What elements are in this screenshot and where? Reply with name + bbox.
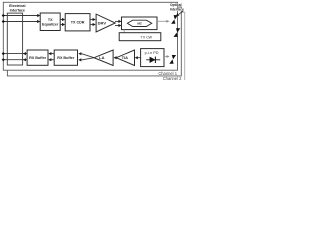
RX wire out 2 — [3, 59, 27, 61]
TX CW laser block — [119, 33, 161, 41]
wire TXCDR to DRV 1 — [90, 19, 93, 21]
connector diamond TX 2 — [2, 20, 5, 23]
optical RX input line — [164, 56, 167, 58]
svg-text:Interface: Interface — [170, 8, 184, 12]
connector diamond TX 1 — [2, 14, 5, 17]
svg-text:MZ: MZ — [137, 22, 142, 26]
RX Buffer block 1 — [27, 50, 48, 65]
svg-text:RX Buffer: RX Buffer — [29, 56, 47, 60]
channel 1 frame — [3, 2, 177, 70]
wire LA to RXbox2 b — [82, 58, 94, 60]
svg-text:p-i-n PD: p-i-n PD — [145, 51, 159, 55]
optical TX output line — [157, 20, 167, 22]
LA limiting amplifier — [94, 50, 113, 66]
TX CDR block — [65, 14, 90, 31]
svg-text:Channel 2: Channel 2 — [163, 76, 182, 80]
svg-text:TIA: TIA — [122, 55, 129, 60]
wire TX input 2 — [3, 21, 37, 23]
arrowhead into TX Equalizer 1 — [37, 14, 40, 17]
wire RXbox2 to RXbox1 b — [51, 59, 54, 61]
svg-text:TX: TX — [48, 18, 53, 22]
svg-text:Equalizer: Equalizer — [42, 22, 59, 26]
svg-text:TX CDR: TX CDR — [71, 21, 85, 25]
photodiode symbol — [146, 59, 160, 61]
wire TXEq to TXCDR 2 — [60, 24, 62, 26]
wire PD to TIA — [138, 57, 141, 59]
RX Buffer block 2 — [54, 50, 77, 65]
RX wire out 1 — [3, 53, 27, 55]
svg-text:Electrical: Electrical — [9, 4, 25, 8]
TX Equalizer block — [40, 13, 60, 31]
channel 2 frame — [7, 7, 181, 76]
p-i-n PD block — [141, 49, 164, 67]
channel 3 frame (partial, light) — [181, 12, 184, 80]
svg-text:Optical: Optical — [170, 3, 182, 7]
svg-text:TX CW: TX CW — [141, 36, 153, 40]
MZ modulator block — [122, 17, 158, 30]
optical connector channel 2 TX (bowtie) — [174, 28, 181, 37]
wire DRV to MZ 1 — [115, 20, 119, 22]
wire TX input 1 — [3, 15, 37, 17]
svg-text:Interface: Interface — [10, 9, 25, 13]
arrow TIA to LA — [114, 56, 117, 59]
electrical connector block — [7, 13, 22, 65]
wire LA to RXbox2 a — [82, 54, 94, 58]
TIA transimpedance amplifier — [116, 50, 134, 66]
connector diamond RX 1 — [2, 52, 5, 55]
svg-text:DRV: DRV — [98, 21, 107, 26]
connector diamond RX 2 — [2, 58, 5, 61]
arrowhead into TX Equalizer 2 — [37, 20, 40, 23]
optical connector channel 1 TX (bowtie) — [171, 15, 178, 24]
wire RXbox2 to RXbox1 a — [51, 53, 54, 55]
pointer arrow to connector — [179, 11, 183, 14]
wire DRV to MZ 2 — [115, 25, 119, 27]
link MZ to TX CW laser — [123, 30, 125, 33]
wire TXEq to TXCDR 1 — [60, 19, 62, 21]
wire TXCDR to DRV 2 — [90, 24, 93, 26]
svg-text:RX Buffer: RX Buffer — [57, 56, 75, 60]
label Optical Interface — [170, 3, 184, 17]
DRV driver amplifier — [96, 14, 115, 32]
optical connector channel 1 RX (bowtie) — [169, 55, 176, 64]
svg-text:LA: LA — [99, 55, 104, 60]
label Electrical Interface — [9, 4, 25, 13]
